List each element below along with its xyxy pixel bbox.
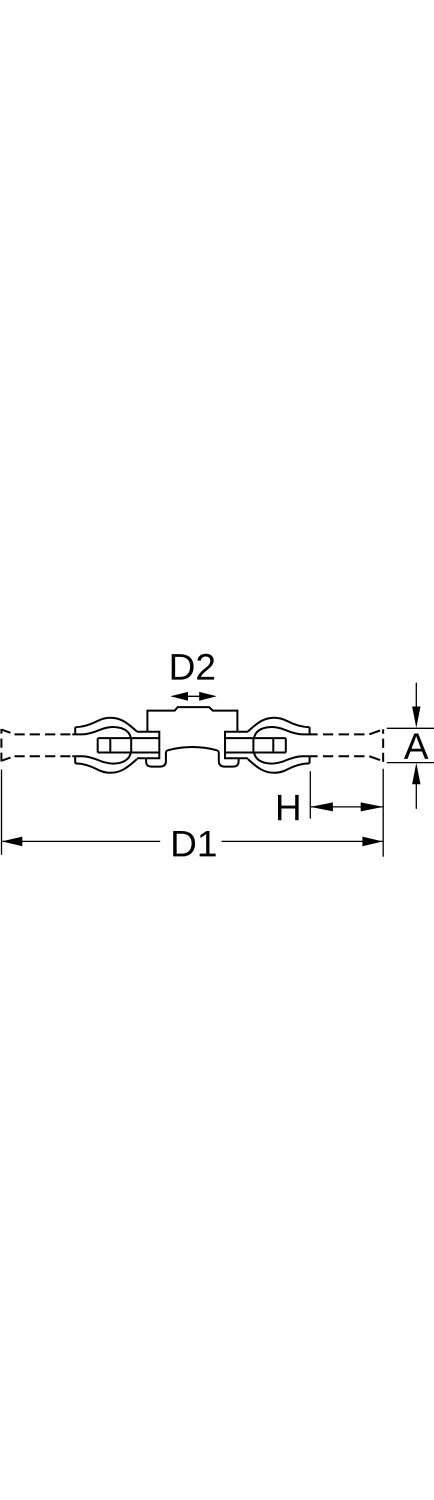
wire: right link bottom edge dashes — [323, 755, 365, 757]
wire: left link top flare dash — [1, 730, 10, 733]
H right arrowhead — [361, 802, 384, 811]
right pin divider — [272, 738, 274, 752]
left sleeve — [137, 732, 159, 758]
wire: A bottom arrow tail — [415, 784, 417, 809]
wire: D2 arrow shaft — [172, 695, 215, 697]
label H — [278, 795, 299, 820]
wire: right link top flare dash — [369, 731, 380, 735]
D2 left arrowhead — [171, 692, 188, 701]
dimension D2 — [172, 695, 215, 697]
dimension D1 — [2, 770, 383, 855]
left pin divider — [109, 738, 111, 752]
wire: D1 dimension line left segment — [2, 840, 160, 842]
right pin rectangle — [225, 738, 286, 752]
dashed left chain link (cut away) — [1, 729, 70, 761]
left clevis top band face — [74, 727, 76, 734]
left clevis bottom band inner edge — [72, 753, 131, 764]
D1 left arrowhead — [2, 837, 23, 847]
wire: A top arrow tail — [415, 683, 417, 707]
label D2 — [172, 654, 214, 680]
H left arrowhead — [310, 802, 333, 811]
D1 right arrowhead — [362, 837, 383, 847]
wire: H left extension line — [309, 771, 311, 818]
right clevis top band face — [309, 727, 311, 734]
right clevis bottom band inner edge — [254, 753, 318, 764]
wire: left link bottom flare dash — [1, 758, 10, 761]
left clevis bottom band face — [74, 756, 76, 763]
wire: D1 dimension line right segment — [222, 840, 383, 842]
left clevis top band outer edge — [75, 718, 137, 732]
right clevis top band inner edge — [254, 727, 318, 738]
right pin inner end — [252, 738, 254, 752]
wire: A top tick — [387, 727, 434, 729]
wire: right link bottom flare dash — [369, 756, 380, 760]
wire: H dimension line — [311, 806, 383, 808]
A top arrowhead — [412, 707, 420, 728]
left pin inner end — [130, 738, 132, 752]
label D1 — [173, 831, 215, 856]
wire: H right extension line — [382, 769, 384, 857]
left pin rectangle — [98, 738, 160, 752]
center bridge bottom arch and feet — [146, 747, 239, 766]
right clevis bottom band face — [309, 756, 311, 763]
A bottom arrowhead — [412, 763, 420, 784]
wire: left link end vertical (dashed) — [0, 729, 2, 761]
wire: left link top edge dashes — [15, 733, 71, 735]
center bridge top plate with stud bump — [147, 707, 237, 732]
wire: A bottom tick — [387, 762, 434, 764]
left clevis bottom band outer edge — [75, 759, 137, 773]
right sleeve — [225, 732, 248, 758]
D2 right arrowhead — [199, 692, 216, 701]
dimension H — [310, 769, 383, 857]
right clevis bottom band outer edge — [248, 759, 310, 773]
wire: right link top edge dashes — [323, 733, 365, 735]
label A — [404, 733, 429, 758]
wire: right link end vertical (dashed) — [382, 729, 384, 762]
wire: D1 left extension line — [1, 770, 3, 855]
dimension A — [387, 683, 434, 809]
right clevis top band outer edge — [248, 718, 310, 732]
wire: left link bottom edge dashes — [15, 755, 71, 757]
left clevis top band inner edge — [72, 727, 131, 738]
dashed right chain link (cut away) — [323, 729, 383, 762]
